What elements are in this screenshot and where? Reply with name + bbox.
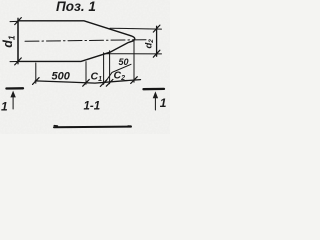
- extension line from tip at x=134: [133, 39, 135, 82]
- section view bar (flattened tube cross-section): [54, 126, 131, 129]
- section cut line right (thick): [144, 88, 165, 91]
- label c1: [91, 71, 103, 84]
- tick at d1 bottom: [15, 58, 22, 65]
- label 50: [119, 57, 129, 67]
- tick at c2 end: [131, 77, 138, 84]
- leader with shelf for label 50: [105, 64, 131, 83]
- section bar left end cap: [54, 125, 57, 127]
- extension line at x=103.6 (c1 end): [103, 53, 105, 85]
- bottom dimension line (500 / c1 / c2): [35, 80, 140, 84]
- label 500: [52, 70, 71, 82]
- tick at 50/c2 boundary: [106, 79, 113, 86]
- dimension line d1 (vertical, on left edge): [17, 18, 19, 64]
- extension line at x=109.6 (c2 start): [109, 51, 111, 84]
- extension line top for d2: [110, 27, 162, 30]
- svg-text:1: 1: [160, 96, 167, 110]
- extension line at x=35.8 (500 start): [35, 63, 37, 83]
- extension stub top (left of d1): [10, 20, 17, 22]
- section bar right end cap: [128, 125, 131, 127]
- section title 1-1: [84, 100, 101, 112]
- tick at 500 end: [83, 79, 90, 86]
- extension line at x=86 (500 end / c1 start): [85, 62, 87, 85]
- section arrow left (pointing up): [12, 95, 14, 109]
- svg-text:Поз. 1: Поз. 1: [56, 0, 96, 14]
- extension line bottom for d2: [104, 53, 162, 55]
- extension stub bottom (left of d1): [10, 61, 17, 63]
- tick at d1 top: [15, 18, 22, 25]
- svg-text:1-1: 1-1: [84, 100, 101, 112]
- svg-text:1: 1: [1, 100, 8, 114]
- tick at c1/50 boundary: [100, 80, 107, 87]
- section cut line left (thick): [6, 87, 23, 89]
- svg-text:500: 500: [52, 70, 71, 82]
- tick at 500 start: [33, 78, 40, 85]
- label 1 (left): [1, 100, 8, 114]
- part outline (main view of pipe with pointed tip): [18, 21, 135, 62]
- tick at d2 top: [153, 25, 160, 32]
- dimension line d2 (vertical): [156, 26, 158, 56]
- section arrow right (pointing up): [154, 96, 156, 110]
- centerline (dash-dot axis): [25, 40, 146, 42]
- label 1 (right): [160, 96, 167, 110]
- label d2 (rotated): [144, 39, 156, 49]
- title label "Поз. 1": [56, 0, 96, 14]
- tick at d2 bottom: [153, 50, 160, 57]
- label c2: [114, 70, 126, 83]
- svg-text:50: 50: [119, 57, 129, 67]
- label d1 (rotated): [1, 35, 16, 48]
